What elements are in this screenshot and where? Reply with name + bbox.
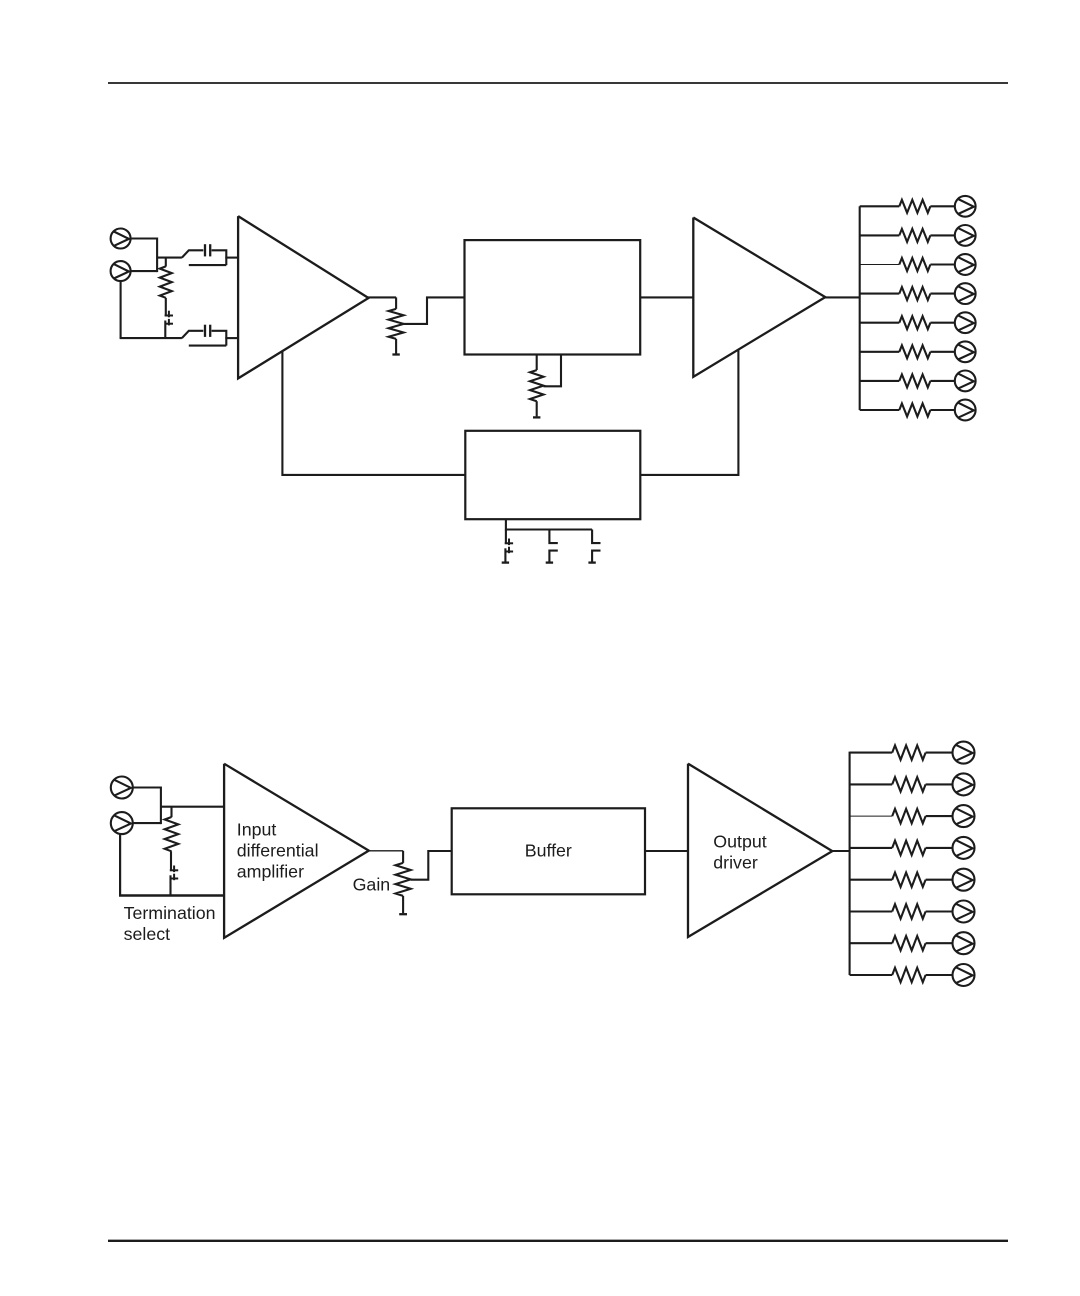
wire resistor to connector 2 (lower) [926, 783, 953, 785]
wire J4 to input node [133, 822, 161, 824]
wire to amplifier input [225, 337, 238, 339]
coupling capacitor [204, 325, 206, 337]
coupling selector switch arm [182, 331, 203, 338]
wire resistor to connector 8 (upper) [930, 409, 954, 411]
wire to control switch [505, 530, 507, 544]
output connector 2 (upper) [955, 225, 976, 246]
input differential amplifier A3 [224, 764, 369, 938]
output connector 3 (lower) [953, 805, 975, 827]
wire joining node (vertical) [160, 787, 162, 825]
open terminal tick [502, 561, 509, 563]
input connector J2 (bottom) [111, 261, 131, 281]
block B1 (track/hold) [465, 240, 641, 354]
switch bypass contact [189, 345, 227, 347]
wire resistor to connector 3 (lower) [926, 815, 953, 817]
wire resistor to connector 2 (upper) [930, 234, 954, 236]
output branch wire 1 (upper) [860, 205, 900, 207]
wire capacitor to output node [212, 331, 227, 346]
output resistor 5 (upper) [899, 316, 930, 329]
bottom input wire [119, 894, 224, 897]
wire resistor to connector 4 (lower) [926, 847, 953, 849]
output bus (lower diagram) [849, 752, 851, 975]
termination resistor (lower diagram) [165, 817, 179, 851]
output resistor 7 (lower) [892, 936, 925, 950]
wire resistor to connector 8 (lower) [926, 974, 953, 976]
wire resistor to connector 1 (upper) [930, 205, 954, 207]
termination select switch (upper diagram) [165, 315, 173, 317]
wire termination switch to lower input wire [164, 321, 166, 339]
clock input 1 (bracket capacitor) [549, 530, 557, 544]
output branch wire 5 (lower) [850, 879, 893, 881]
wire J1 to input node [131, 237, 158, 239]
wire input node to amplifier [161, 806, 224, 808]
output branch wire 6 (lower) [850, 910, 893, 912]
wire stub to termination resistor [170, 807, 172, 818]
wire resistor to connector 5 (lower) [926, 879, 953, 881]
wire A4 output to bus [831, 850, 849, 852]
block B2 (clamp/feedback) [465, 431, 640, 519]
buffer block [452, 808, 645, 894]
svg-text:differential: differential [237, 841, 319, 861]
input amplifier A1 [238, 216, 368, 378]
svg-text:Output: Output [713, 832, 766, 852]
page top rule [108, 82, 1008, 84]
output branch wire 1 (lower) [850, 752, 893, 754]
output connector 8 (upper) [955, 400, 976, 421]
output branch wire 2 (lower) [850, 783, 893, 785]
output resistor 7 (upper) [899, 374, 930, 387]
output connector 6 (upper) [955, 341, 976, 362]
wire A2 output to bus [824, 296, 859, 298]
output branch wire 2 (upper) [860, 234, 900, 236]
wire switch to open terminal [504, 548, 506, 561]
wire termination switch to bottom wire [169, 875, 171, 895]
input connector J4 (bottom) [111, 812, 133, 834]
gain-set resistor (upper diagram) [389, 309, 404, 339]
output branch wire 8 (lower) [850, 974, 893, 976]
wire A1 output [368, 296, 397, 298]
gain tap wire to buffer [411, 851, 452, 880]
wire resistor to connector 1 (lower) [926, 752, 953, 754]
wire resistor to termination switch [165, 298, 167, 316]
clock input 2 (bracket capacitor) [592, 530, 600, 544]
output connector 1 (upper) [955, 196, 976, 217]
bias resistor below B1 [530, 370, 544, 401]
output amplifier A2 [693, 218, 825, 377]
output branch wire 3 (lower) [850, 815, 893, 817]
svg-text:amplifier: amplifier [237, 861, 304, 881]
wire resistor to open terminal [402, 896, 404, 913]
wire resistor to connector 4 (upper) [930, 293, 954, 295]
output branch wire 3 (upper) [860, 264, 900, 266]
output connector 1 (lower) [953, 742, 975, 764]
wire input node to coupling switch [157, 257, 182, 259]
output resistor 8 (lower) [892, 968, 925, 982]
wire J2 down to lower input wire [120, 281, 122, 338]
coupling capacitor [204, 244, 206, 256]
wire into gain resistor [395, 297, 397, 309]
output resistor 6 (lower) [892, 904, 925, 919]
svg-text:Buffer: Buffer [525, 841, 572, 861]
output resistor 4 (lower) [892, 841, 925, 855]
wire resistor to termination switch [170, 851, 172, 870]
output connector 5 (lower) [953, 869, 975, 891]
output branch wire 4 (upper) [860, 293, 900, 295]
svg-text:Gain: Gain [353, 875, 391, 895]
output bus (upper diagram) [859, 206, 861, 410]
feedback wire B2 to A2 [640, 349, 738, 475]
output connector 2 (lower) [953, 773, 975, 795]
wire joining node (vertical) [156, 238, 158, 273]
output connector 3 (upper) [955, 254, 976, 275]
output branch wire 4 (lower) [850, 847, 893, 849]
termination resistor (upper diagram) [160, 266, 172, 297]
output branch wire 5 (upper) [860, 322, 900, 324]
wire resistor to connector 7 (lower) [926, 942, 953, 944]
wire resistor to open terminal [536, 401, 538, 416]
output branch wire 7 (upper) [860, 380, 900, 382]
output branch wire 8 (upper) [860, 409, 900, 411]
wire resistor to connector 7 (upper) [930, 380, 954, 382]
output connector 8 (lower) [953, 964, 975, 986]
open terminal tick [392, 353, 399, 355]
output connector 4 (upper) [955, 283, 976, 304]
wire J4 down to bottom wire [119, 834, 121, 895]
input connector J3 (top) [111, 777, 133, 799]
control switch symbol [505, 542, 513, 544]
output connector 4 (lower) [953, 837, 975, 859]
wire capacitor to output node [212, 250, 227, 265]
wire resistor to open terminal [395, 339, 397, 354]
wire B1 bottom pin 2 to resistor tap [544, 355, 562, 387]
wire J3 to input node [133, 786, 161, 788]
wire to amplifier input [225, 257, 238, 259]
output resistor 5 (lower) [892, 873, 925, 887]
input connector J1 (top) [111, 229, 131, 249]
open terminal tick [533, 416, 540, 418]
output resistor 6 (upper) [899, 345, 930, 358]
svg-text:Termination: Termination [124, 903, 216, 923]
switch bypass contact [189, 264, 227, 266]
gain resistor (lower diagram) [396, 863, 411, 896]
termination select switch (lower diagram) [170, 869, 178, 871]
wire resistor to connector 6 (lower) [926, 910, 953, 912]
coupling selector switch arm [182, 250, 203, 257]
output resistor 2 (upper) [899, 229, 930, 242]
control rail below B2 [506, 519, 592, 529]
wire into gain resistor [402, 851, 404, 863]
wire resistor to connector 5 (upper) [930, 322, 954, 324]
gain tap wire to block B1 [404, 297, 465, 324]
output connector 6 (lower) [953, 901, 975, 923]
output resistor 1 (upper) [899, 200, 930, 213]
output resistor 8 (upper) [899, 404, 930, 417]
output resistor 2 (lower) [892, 777, 925, 791]
output resistor 1 (lower) [892, 745, 925, 759]
svg-text:driver: driver [713, 852, 758, 872]
wire resistor to connector 6 (upper) [930, 351, 954, 353]
lower input wire [120, 337, 182, 339]
wire resistor to connector 3 (upper) [930, 263, 954, 265]
output branch wire 7 (lower) [850, 942, 893, 944]
output resistor 4 (upper) [899, 287, 930, 300]
svg-text:select: select [124, 924, 171, 944]
output connector 7 (upper) [955, 371, 976, 392]
output branch wire 6 (upper) [860, 351, 900, 353]
wire J2 to input node [131, 270, 158, 272]
wire A3 output [368, 850, 403, 852]
wire B1 bottom pin 1 [536, 355, 538, 371]
output connector 5 (upper) [955, 312, 976, 333]
output driver A4 [688, 764, 832, 937]
wire buffer to output driver [645, 850, 688, 852]
wire B1 to output amplifier [640, 296, 693, 298]
output connector 7 (lower) [953, 932, 975, 954]
output resistor 3 (lower) [892, 809, 925, 823]
open terminal tick [399, 913, 407, 915]
svg-text:Input: Input [237, 820, 277, 840]
wire stub to termination resistor [165, 258, 167, 267]
output resistor 3 (upper) [899, 258, 930, 271]
feedback wire A1 to block B2 [282, 351, 465, 475]
page bottom rule [108, 1240, 1008, 1242]
